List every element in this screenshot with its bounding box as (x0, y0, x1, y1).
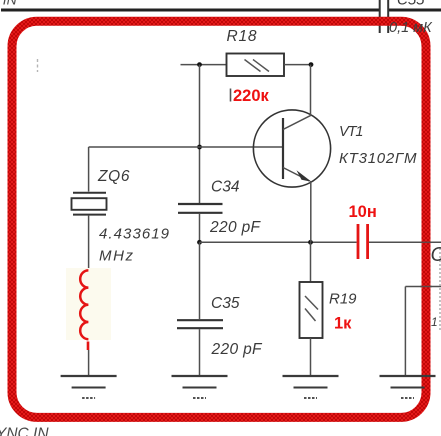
wire base rail y=147 (89, 146, 283, 148)
svg-text:4.433619: 4.433619 (99, 226, 170, 243)
wire R19 to ground (310, 338, 312, 376)
ground G1 (61, 376, 117, 398)
resistor R19 hatch marks (305, 296, 318, 321)
dashed edge of cut component (439, 248, 441, 331)
node junction base wire (197, 145, 202, 150)
wire right component top (405, 286, 441, 288)
transistor VT1 base bar (282, 118, 284, 179)
wire C34 to mid rail (199, 214, 201, 243)
svg-text:R18: R18 (227, 28, 257, 45)
ground G4 (380, 376, 436, 398)
svg-text:YNC IN: YNC IN (0, 426, 49, 436)
inductor red lead segment (87, 342, 90, 351)
svg-text:С55: С55 (397, 0, 425, 9)
ground G3 (283, 376, 339, 398)
wire emitter down to mid rail (310, 182, 312, 243)
svg-text:R19: R19 (329, 291, 357, 308)
wire mid rail y=242 (200, 241, 357, 243)
svg-text:0,1 мК: 0,1 мК (389, 20, 433, 36)
resistor R18 body (227, 54, 285, 77)
wire right component to ground (404, 287, 406, 377)
wire inductor to ground (88, 350, 90, 376)
transistor VT1 collector lead (283, 65, 311, 130)
svg-text:220к: 220к (233, 87, 270, 105)
ground G2 (172, 376, 228, 398)
svg-text:C34: C34 (211, 179, 240, 196)
wire vertical node A (x=199.5) from top rail to C34 (199, 65, 201, 203)
node collector junction (309, 62, 314, 67)
resistor R18 hatch marks (245, 60, 270, 72)
wire C35 to ground (199, 329, 201, 376)
value tick before 220k (230, 89, 232, 102)
wire crystal branch down (88, 147, 90, 192)
wire stub to R18 (181, 64, 227, 66)
svg-text:С: С (431, 244, 441, 266)
svg-text:ZQ6: ZQ6 (97, 168, 130, 185)
wire 10н cap to right edge (369, 241, 441, 243)
svg-text:220 pF: 220 pF (209, 219, 262, 236)
svg-text:КТ3102ГМ: КТ3102ГМ (339, 150, 417, 167)
transistor VT1 emitter arrow (297, 170, 312, 182)
inductor selection highlight (66, 268, 111, 340)
transistor VT1 circle (253, 110, 330, 187)
svg-text:VT1: VT1 (339, 124, 364, 140)
crystal ZQ6 bottom plate (73, 214, 106, 216)
svg-text:10н: 10н (349, 203, 377, 221)
crystal ZQ6 body (72, 198, 107, 210)
wire segment over border (right component top) (420, 286, 432, 288)
capacitor C55 plates (cut at top edge) (380, 0, 389, 33)
wire mid rail to R19 (310, 242, 312, 282)
node junction mid rail left (197, 240, 202, 245)
svg-text:220 pF: 220 pF (211, 341, 264, 358)
capacitor C35 plates (177, 320, 223, 328)
wire top rail right of C55 (389, 9, 441, 12)
svg-text:C35: C35 (211, 295, 240, 312)
resistor R19 body (300, 282, 323, 338)
wire top rail left (thick bus line) (1, 9, 379, 12)
inductor L (red coil) (80, 270, 88, 339)
svg-text:1 г: 1 г (431, 315, 441, 329)
wire crystal to inductor (88, 216, 90, 270)
capacitor C34 plates (178, 204, 223, 213)
wire C35 branch (199, 242, 201, 319)
cursor artifact mark (37, 59, 39, 72)
transistor VT1 emitter lead (283, 168, 310, 182)
svg-text:MHz: MHz (99, 248, 134, 265)
node junction mid rail right (emitter) (308, 240, 313, 245)
wire segment over border (mid rail) (420, 241, 432, 243)
svg-text:. IN: . IN (0, 0, 18, 8)
wire R18 to collector node (284, 64, 311, 66)
crystal ZQ6 top plate (73, 192, 106, 194)
svg-text:1к: 1к (334, 315, 352, 333)
node junction at base rail top (197, 62, 202, 67)
capacitor 10н plates (red) (358, 224, 368, 259)
